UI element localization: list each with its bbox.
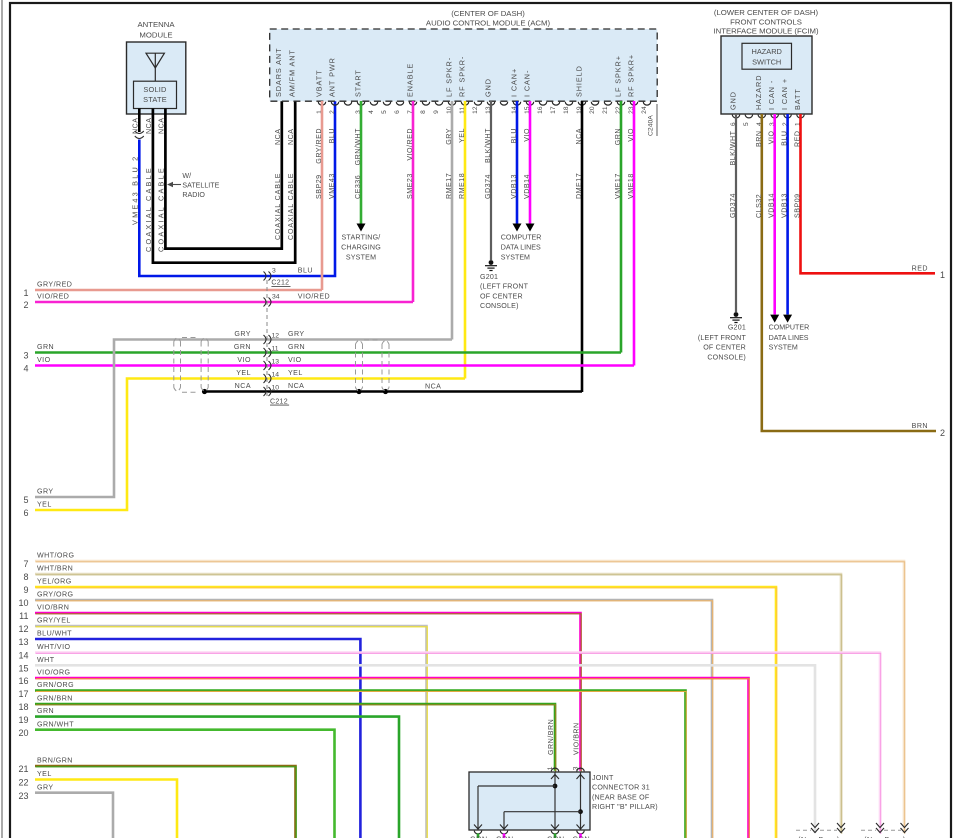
svg-text:VME17: VME17 bbox=[614, 173, 622, 199]
svg-text:CHARGING: CHARGING bbox=[341, 243, 381, 251]
svg-text:GRY: GRY bbox=[37, 783, 54, 791]
svg-text:18: 18 bbox=[563, 106, 570, 114]
svg-text:VME18: VME18 bbox=[627, 173, 635, 199]
svg-text:4: 4 bbox=[23, 364, 28, 374]
svg-text:8: 8 bbox=[23, 572, 28, 582]
svg-text:STARTING/: STARTING/ bbox=[342, 233, 381, 241]
wire: antenna coax 1 (VME43 BLU 2) black upper bbox=[138, 109, 141, 133]
svg-text:COAXIAL CABLE: COAXIAL CABLE bbox=[156, 166, 165, 252]
svg-text:WHT/ORG: WHT/ORG bbox=[37, 552, 74, 560]
svg-text:3: 3 bbox=[573, 766, 580, 770]
wire ACM pin22 GRN vertical bbox=[620, 101, 623, 353]
svg-text:16: 16 bbox=[537, 106, 544, 114]
svg-text:9: 9 bbox=[23, 585, 28, 595]
svg-text:GRY: GRY bbox=[288, 330, 305, 338]
svg-text:GRN: GRN bbox=[547, 835, 565, 838]
svg-text:BLU: BLU bbox=[781, 131, 789, 146]
svg-text:1: 1 bbox=[23, 288, 28, 298]
wire 15 WHT from left edge turning down at x=815 bbox=[35, 665, 815, 833]
svg-text:12: 12 bbox=[472, 106, 479, 114]
svg-text:21: 21 bbox=[18, 764, 28, 774]
svg-text:GRY/YEL: GRY/YEL bbox=[37, 617, 71, 625]
svg-text:YEL: YEL bbox=[288, 369, 303, 377]
svg-text:VIO/BRN: VIO/BRN bbox=[573, 722, 581, 755]
svg-text:(LOWER CENTER OF DASH): (LOWER CENTER OF DASH) bbox=[714, 8, 819, 17]
svg-text:5: 5 bbox=[743, 122, 750, 126]
svg-text:22: 22 bbox=[18, 778, 28, 788]
svg-text:MODULE: MODULE bbox=[139, 31, 172, 40]
svg-text:HAZARD: HAZARD bbox=[752, 47, 782, 56]
svg-text:DATA LINES: DATA LINES bbox=[769, 334, 809, 342]
wire: coaxial cable 2 to AM/FM ANT bbox=[153, 101, 295, 263]
svg-text:VDB13: VDB13 bbox=[510, 174, 518, 199]
JC31 pin 3 arc and label bbox=[577, 768, 584, 771]
wire FCIM pin4 BRN down right to edge bbox=[762, 114, 936, 431]
connector C212 pin 13 VIO bbox=[264, 361, 267, 370]
svg-text:GRY/ORG: GRY/ORG bbox=[37, 591, 74, 599]
JC31 bottom arrows and arcs bbox=[474, 825, 482, 830]
svg-text:9: 9 bbox=[433, 110, 440, 114]
svg-text:GRN: GRN bbox=[614, 128, 622, 145]
svg-text:DME17: DME17 bbox=[575, 173, 583, 199]
svg-text:10: 10 bbox=[272, 385, 280, 392]
svg-text:ANTENNA: ANTENNA bbox=[137, 20, 175, 29]
svg-text:11: 11 bbox=[19, 611, 28, 621]
connector C212 pin 10 NCA bbox=[264, 387, 267, 396]
svg-text:GRN/WHT: GRN/WHT bbox=[354, 128, 362, 166]
svg-text:17: 17 bbox=[550, 106, 557, 114]
svg-text:NCA: NCA bbox=[575, 128, 583, 144]
svg-text:BRN: BRN bbox=[755, 131, 763, 147]
wire 19 GRN from left edge turning down at x=399 bbox=[35, 717, 399, 838]
svg-text:YEL: YEL bbox=[37, 770, 52, 778]
svg-text:NCA: NCA bbox=[425, 383, 441, 391]
wire ACM pin14 BLU with arrow bbox=[516, 101, 519, 224]
svg-text:RADIO: RADIO bbox=[182, 191, 205, 199]
svg-text:GRN/BRN: GRN/BRN bbox=[547, 719, 555, 755]
svg-text:NCA: NCA bbox=[131, 118, 139, 134]
svg-text:GRY/RED: GRY/RED bbox=[315, 128, 323, 164]
svg-text:ENABLE: ENABLE bbox=[405, 63, 414, 97]
twisted-shield dashed marker left group bbox=[173, 342, 175, 388]
wire ACM pin19 SHIELD NCA vertical bbox=[581, 101, 584, 392]
svg-text:21: 21 bbox=[602, 106, 609, 114]
antenna symbol bbox=[146, 53, 164, 68]
svg-text:GRN: GRN bbox=[496, 835, 514, 838]
svg-text:GRN: GRN bbox=[37, 707, 54, 715]
svg-text:START: START bbox=[353, 69, 362, 97]
svg-text:I CAN+: I CAN+ bbox=[509, 68, 518, 97]
svg-text:15: 15 bbox=[18, 664, 28, 674]
svg-text:BLU: BLU bbox=[510, 128, 518, 143]
svg-text:VIO: VIO bbox=[237, 356, 251, 364]
svg-text:VIO/RED: VIO/RED bbox=[298, 293, 330, 301]
svg-text:BLK/WHT: BLK/WHT bbox=[729, 130, 737, 165]
ground G201 ACM bbox=[489, 260, 494, 265]
svg-text:13: 13 bbox=[272, 359, 280, 366]
wire 3 GRN from left edge to ACM pin22 via C212 pin11 bbox=[35, 351, 621, 354]
svg-text:BATT: BATT bbox=[793, 88, 802, 110]
svg-text:RIGHT "B" PILLAR): RIGHT "B" PILLAR) bbox=[592, 803, 658, 811]
svg-text:14: 14 bbox=[272, 372, 280, 379]
svg-text:RME18: RME18 bbox=[458, 173, 466, 199]
svg-text:3: 3 bbox=[272, 268, 276, 275]
svg-text:VIO/ORG: VIO/ORG bbox=[37, 669, 71, 677]
svg-text:VBATT: VBATT bbox=[314, 70, 323, 97]
svg-text:8: 8 bbox=[420, 110, 427, 114]
wire 12 GRY/YEL from left edge turning down at x=426.5 bbox=[35, 626, 427, 838]
svg-text:RF SPKR+: RF SPKR+ bbox=[626, 54, 635, 97]
wire NCA shield drain bbox=[204, 390, 582, 393]
svg-text:W/: W/ bbox=[182, 172, 191, 180]
wire 9 YEL/ORG from left edge turning down at x=776 bbox=[35, 587, 776, 838]
wire ACM pin15 VIO with arrow bbox=[529, 101, 532, 224]
svg-text:VIO: VIO bbox=[288, 356, 302, 364]
svg-text:GRN: GRN bbox=[470, 835, 488, 838]
svg-text:SYSTEM: SYSTEM bbox=[501, 254, 530, 262]
svg-text:COAXIAL CABLE: COAXIAL CABLE bbox=[287, 173, 295, 240]
svg-text:SDARS ANT: SDARS ANT bbox=[274, 48, 283, 97]
svg-text:1: 1 bbox=[940, 270, 945, 280]
svg-text:SBP09: SBP09 bbox=[794, 193, 802, 218]
svg-text:C240A: C240A bbox=[648, 115, 655, 136]
C212 dashed connector line bbox=[266, 280, 268, 397]
svg-text:GRN: GRN bbox=[37, 343, 54, 351]
wire 10 GRY/ORG from left edge turning down at x=712 bbox=[35, 600, 712, 838]
hazard switch box bbox=[742, 43, 792, 69]
svg-text:VDB14: VDB14 bbox=[768, 193, 776, 218]
connector C212 pin 12 GRY bbox=[264, 335, 267, 344]
svg-text:NCA: NCA bbox=[235, 382, 251, 390]
wire 6 YEL from left edge up to C212 pin14 then ACM pin11 bbox=[35, 379, 465, 511]
svg-text:GD374: GD374 bbox=[729, 193, 737, 218]
front controls interface module FCIM box bbox=[721, 36, 812, 114]
wire 2 VIO/RED from left edge to ACM pin7 via C212 pin34 bbox=[35, 301, 413, 304]
svg-text:RF SPKR-: RF SPKR- bbox=[457, 56, 466, 97]
svg-text:VIO/RED: VIO/RED bbox=[406, 128, 414, 161]
svg-text:GRN/WHT: GRN/WHT bbox=[37, 720, 74, 728]
svg-text:VDB14: VDB14 bbox=[523, 174, 531, 199]
svg-text:SOLID: SOLID bbox=[143, 85, 166, 94]
svg-text:WHT: WHT bbox=[37, 656, 55, 664]
svg-text:6: 6 bbox=[23, 508, 28, 518]
svg-text:SYSTEM: SYSTEM bbox=[769, 344, 798, 352]
svg-text:CLS32: CLS32 bbox=[755, 194, 763, 218]
svg-text:CONSOLE): CONSOLE) bbox=[480, 302, 519, 310]
svg-text:(LEFT FRONT: (LEFT FRONT bbox=[480, 283, 529, 291]
svg-text:HAZARD: HAZARD bbox=[754, 75, 763, 110]
wire FCIM pin3 VIO with arrow bbox=[773, 114, 776, 315]
svg-text:VME43: VME43 bbox=[328, 173, 336, 199]
svg-text:I CAN-: I CAN- bbox=[522, 70, 531, 97]
svg-text:I CAN +: I CAN + bbox=[780, 78, 789, 110]
joint connector 31 box bbox=[469, 772, 590, 830]
svg-text:GRN: GRN bbox=[573, 835, 591, 838]
svg-text:VIO: VIO bbox=[627, 128, 635, 142]
svg-text:GND: GND bbox=[728, 91, 737, 110]
wire 4 VIO from left edge to ACM pin23 via C212 pin13 bbox=[35, 364, 634, 367]
svg-text:BLK/WHT: BLK/WHT bbox=[484, 128, 492, 163]
svg-text:DATA LINES: DATA LINES bbox=[501, 243, 541, 251]
wire 23 GRY from left edge turning down at x=113 bbox=[35, 793, 113, 838]
svg-text:WHT/VIO: WHT/VIO bbox=[37, 643, 71, 651]
svg-text:VIO/RED: VIO/RED bbox=[37, 293, 69, 301]
svg-text:AM/FM ANT: AM/FM ANT bbox=[288, 49, 297, 97]
svg-text:COAXIAL CABLE: COAXIAL CABLE bbox=[144, 166, 153, 252]
svg-text:ANT PWR: ANT PWR bbox=[327, 57, 336, 97]
svg-text:24: 24 bbox=[641, 106, 648, 114]
svg-text:11: 11 bbox=[272, 346, 279, 353]
svg-text:2: 2 bbox=[23, 300, 28, 310]
wire 17 GRN/ORG from left edge turning down at x=685.5 bbox=[35, 691, 686, 838]
svg-text:GRN/BRN: GRN/BRN bbox=[37, 695, 73, 703]
svg-text:YEL/ORG: YEL/ORG bbox=[37, 578, 72, 586]
svg-text:COAXIAL CABLE: COAXIAL CABLE bbox=[274, 173, 282, 240]
svg-text:17: 17 bbox=[18, 689, 28, 699]
wire 5 GRY from left edge up to C212 pin12 then ACM pin10 bbox=[35, 340, 452, 498]
svg-text:4: 4 bbox=[368, 110, 375, 114]
svg-text:CONSOLE): CONSOLE) bbox=[707, 353, 746, 361]
svg-text:SYSTEM: SYSTEM bbox=[346, 254, 376, 262]
svg-text:SME23: SME23 bbox=[406, 173, 414, 199]
svg-text:7: 7 bbox=[23, 559, 28, 569]
svg-text:GRN/ORG: GRN/ORG bbox=[37, 681, 74, 689]
svg-text:GND: GND bbox=[483, 78, 492, 97]
svg-text:YEL: YEL bbox=[236, 369, 251, 377]
page border frame bbox=[1, 0, 3, 838]
svg-text:GRN: GRN bbox=[288, 343, 305, 351]
wire 1 GRY/RED from left edge to ACM pin1 bbox=[35, 289, 322, 292]
svg-text:NCA: NCA bbox=[145, 118, 153, 134]
svg-text:G201: G201 bbox=[728, 324, 746, 332]
wire 16 VIO/ORG from left edge turning down at x=748.5 bbox=[35, 678, 749, 838]
svg-text:C212: C212 bbox=[271, 280, 289, 287]
wire 14 WHT/VIO from left edge turning down at x=880 bbox=[35, 653, 880, 834]
solid state box U1 bbox=[134, 81, 177, 108]
wire FCIM pin2 BLU with arrow bbox=[786, 114, 789, 315]
svg-text:C212: C212 bbox=[270, 398, 288, 405]
svg-text:NCA: NCA bbox=[288, 382, 304, 390]
FCIM connector pin arcs bbox=[732, 115, 739, 118]
svg-text:6: 6 bbox=[394, 110, 401, 114]
svg-text:GRY: GRY bbox=[445, 128, 453, 145]
svg-text:(NEAR BASE OF: (NEAR BASE OF bbox=[592, 793, 650, 801]
svg-text:VIO: VIO bbox=[37, 356, 51, 364]
svg-text:RED: RED bbox=[912, 264, 928, 272]
svg-text:LF SPKR+: LF SPKR+ bbox=[613, 55, 622, 97]
svg-text:YEL: YEL bbox=[37, 501, 52, 509]
wire ACM pin13 BLK/WHT to ground G201 bbox=[490, 101, 492, 260]
svg-text:BLU: BLU bbox=[328, 128, 336, 143]
ground G201 FCIM bbox=[734, 312, 739, 317]
svg-text:20: 20 bbox=[18, 728, 28, 738]
svg-text:3: 3 bbox=[23, 351, 28, 361]
svg-text:SATELLITE: SATELLITE bbox=[182, 182, 219, 190]
JC31 internal bus lines bbox=[554, 772, 556, 830]
svg-text:BLU/WHT: BLU/WHT bbox=[37, 630, 72, 638]
svg-text:FRONT CONTROLS: FRONT CONTROLS bbox=[730, 17, 802, 26]
svg-text:SWITCH: SWITCH bbox=[752, 57, 781, 66]
svg-text:(CENTER OF DASH): (CENTER OF DASH) bbox=[451, 9, 525, 18]
svg-text:COMPUTER: COMPUTER bbox=[501, 233, 542, 241]
wire ACM pin7 VIO/RED vertical bbox=[412, 101, 415, 302]
wire 13 BLU/WHT from left edge turning down at x=360.4 bbox=[35, 639, 360, 838]
svg-text:VDB13: VDB13 bbox=[781, 193, 789, 218]
svg-text:12: 12 bbox=[272, 333, 280, 340]
svg-text:BRN/GRN: BRN/GRN bbox=[37, 757, 73, 765]
wire 8 WHT/BRN from left edge turning down at x=841 bbox=[35, 574, 841, 833]
twisted-shield dashed marker right group bbox=[355, 344, 357, 388]
svg-text:13: 13 bbox=[18, 637, 28, 647]
wire ACM pin3 GRN/WHT with arrow to starting/charging bbox=[360, 101, 363, 224]
wire 20 GRN/WHT from left edge turning down at x=334.5 bbox=[35, 730, 335, 838]
wire 18 GRN/BRN from left edge turning down at x=555 bbox=[35, 704, 555, 771]
wire ACM pin23 VIO vertical bbox=[633, 101, 636, 366]
svg-text:(LEFT FRONT: (LEFT FRONT bbox=[698, 334, 747, 342]
svg-text:GRY: GRY bbox=[37, 488, 54, 496]
ACM connector C240A pin arcs and numbers bbox=[318, 102, 325, 105]
svg-text:COMPUTER: COMPUTER bbox=[769, 324, 810, 332]
wire ACM pin1 GRY/RED vertical bbox=[321, 101, 324, 290]
svg-text:NCA: NCA bbox=[157, 118, 165, 134]
wire ACM pin11 YEL vertical bbox=[464, 101, 467, 379]
wire 7 WHT/ORG from left edge turning down at x=904 bbox=[35, 561, 904, 833]
svg-text:OF CENTER: OF CENTER bbox=[480, 292, 523, 300]
wire 11 VIO/BRN from left edge turning down at x=580.5 bbox=[35, 613, 581, 771]
wire 21 BRN/GRN from left edge turning down at x=295.5 bbox=[35, 766, 296, 838]
svg-text:VIO: VIO bbox=[768, 131, 776, 145]
wire 22 YEL from left edge turning down at x=177 bbox=[35, 780, 177, 838]
inline connector on antenna wire 1 bbox=[135, 131, 144, 134]
svg-text:NCA: NCA bbox=[274, 129, 282, 145]
wire FCIM pin1 RED down right to edge bbox=[801, 114, 936, 273]
svg-text:GD374: GD374 bbox=[484, 174, 492, 199]
wire: coaxial cable 3 to SDARS ANT bbox=[165, 101, 281, 249]
svg-text:VIO: VIO bbox=[523, 128, 531, 142]
svg-text:BRN: BRN bbox=[912, 422, 928, 430]
svg-text:I CAN -: I CAN - bbox=[767, 80, 776, 110]
svg-text:2: 2 bbox=[940, 428, 945, 438]
svg-text:14: 14 bbox=[18, 651, 28, 661]
svg-text:AUDIO CONTROL MODULE (ACM): AUDIO CONTROL MODULE (ACM) bbox=[426, 19, 551, 28]
connector C212 on BLU wire pin 3 bbox=[264, 272, 267, 281]
JC31 bottom wire stubs bbox=[477, 834, 480, 838]
svg-text:VIO/BRN: VIO/BRN bbox=[37, 604, 69, 612]
svg-text:5: 5 bbox=[381, 110, 388, 114]
svg-text:16: 16 bbox=[18, 676, 28, 686]
svg-text:SBP29: SBP29 bbox=[315, 174, 323, 199]
connector C212 pin 11 GRN bbox=[264, 348, 267, 357]
svg-text:18: 18 bbox=[18, 702, 28, 712]
svg-text:20: 20 bbox=[589, 106, 596, 114]
wire FCIM pin6 BLK/WHT to ground G201 bbox=[735, 114, 737, 312]
svg-text:10: 10 bbox=[18, 598, 28, 608]
svg-text:23: 23 bbox=[18, 791, 28, 801]
svg-text:12: 12 bbox=[18, 624, 28, 634]
svg-text:34: 34 bbox=[272, 294, 280, 301]
svg-text:G201: G201 bbox=[480, 273, 498, 281]
wire ACM pin10 GRY vertical bbox=[451, 101, 454, 340]
svg-text:STATE: STATE bbox=[143, 95, 167, 104]
svg-text:GRN: GRN bbox=[234, 343, 251, 351]
svg-text:SHIELD: SHIELD bbox=[574, 65, 583, 97]
connector C212 pin 14 YEL bbox=[264, 374, 267, 383]
audio control module ACM box bbox=[270, 29, 658, 101]
svg-text:CE336: CE336 bbox=[354, 175, 362, 199]
svg-text:CONNECTOR 31: CONNECTOR 31 bbox=[592, 784, 650, 792]
svg-text:VME43 BLU 2: VME43 BLU 2 bbox=[130, 155, 139, 225]
off-page chevrons wires 15 8 14 7 bbox=[811, 823, 819, 828]
svg-text:WHT/BRN: WHT/BRN bbox=[37, 565, 73, 573]
svg-text:JOINT: JOINT bbox=[592, 774, 614, 782]
svg-text:RED: RED bbox=[794, 131, 802, 147]
wire: VME43 BLU 2 blue down and right to ACM pin 2 bbox=[139, 101, 335, 276]
svg-text:5: 5 bbox=[23, 495, 28, 505]
svg-text:LF SPKR-: LF SPKR- bbox=[444, 57, 453, 97]
svg-text:NCA: NCA bbox=[287, 129, 295, 145]
svg-text:1: 1 bbox=[547, 766, 554, 770]
svg-text:19: 19 bbox=[18, 715, 28, 725]
svg-text:INTERFACE MODULE (FCIM): INTERFACE MODULE (FCIM) bbox=[713, 27, 818, 36]
svg-text:OF CENTER: OF CENTER bbox=[703, 344, 746, 352]
svg-text:RME17: RME17 bbox=[445, 173, 453, 199]
svg-text:GRY/RED: GRY/RED bbox=[37, 281, 72, 289]
connector C212 on VIO/RED wire pin 34 bbox=[264, 298, 267, 307]
svg-text:2: 2 bbox=[329, 110, 336, 114]
JC31 pin 1 arc and label bbox=[551, 768, 558, 771]
antenna module box bbox=[127, 42, 186, 114]
svg-text:GRY: GRY bbox=[234, 330, 251, 338]
svg-text:YEL: YEL bbox=[458, 128, 466, 143]
svg-text:BLU: BLU bbox=[298, 267, 313, 275]
